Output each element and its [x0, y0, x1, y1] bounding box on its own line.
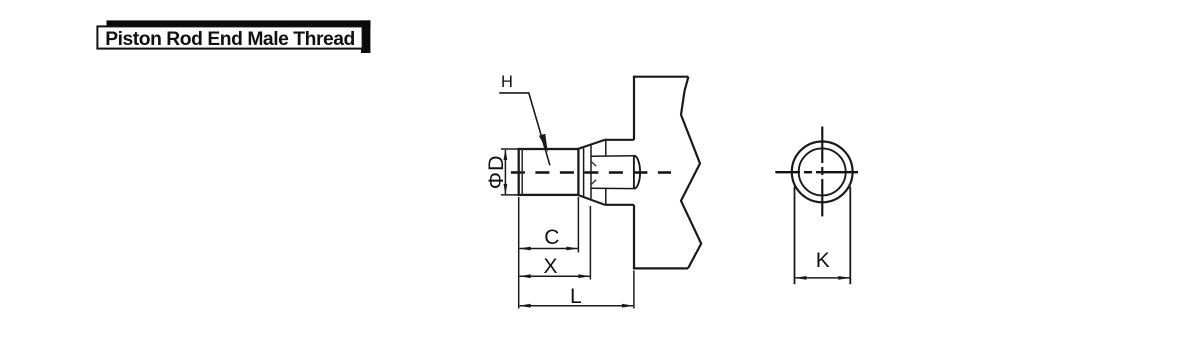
- body top edge: [633, 76, 689, 78]
- nut facet stub top: [592, 162, 597, 167]
- nut inner vertical v2: [590, 145, 592, 200]
- nut cone outer bottom: [578, 195, 604, 205]
- nut inner vertical v1: [583, 147, 585, 197]
- dimension C line: [519, 247, 579, 251]
- outer circle: [792, 142, 853, 203]
- nut corner edge bottom: [605, 189, 607, 205]
- inner circle (thread): [799, 148, 846, 195]
- dimension K line: [795, 276, 851, 280]
- label K: [816, 249, 830, 272]
- nut flat top edge: [591, 155, 634, 158]
- extension line body face: [633, 271, 635, 309]
- label L: [570, 285, 582, 308]
- horizontal centerline (right view): [775, 171, 858, 173]
- title box: [97, 26, 362, 50]
- svg-text:X: X: [543, 255, 557, 278]
- flat line left (K extension): [794, 187, 796, 285]
- nut bottom flat: [605, 204, 634, 206]
- extension line rod left: [518, 197, 520, 309]
- vertical centerline (right view): [821, 127, 823, 217]
- nut flat bottom edge: [591, 187, 634, 189]
- svg-text:L: L: [570, 285, 582, 308]
- svg-text:ΦD: ΦD: [483, 154, 508, 189]
- label H: [501, 73, 513, 91]
- dimension L line: [519, 304, 634, 308]
- svg-text:K: K: [816, 249, 830, 272]
- nut facet stub bottom: [592, 180, 597, 185]
- title shadow block: [107, 20, 371, 53]
- label C: [544, 226, 559, 249]
- threaded rod outline: [519, 149, 579, 195]
- dimension phiD extension lines: [501, 149, 521, 195]
- nut cone outer top: [578, 140, 605, 149]
- svg-text:Piston Rod End Male Thread: Piston Rod End Male Thread: [105, 29, 355, 50]
- label phiD (rotated): [483, 154, 508, 189]
- dimension phiD line with arrows: [504, 149, 508, 195]
- nut corner edge top: [605, 140, 607, 156]
- body left edge lower: [633, 205, 635, 269]
- body left edge upper: [633, 77, 635, 140]
- svg-text:C: C: [544, 226, 559, 249]
- body bottom edge: [633, 267, 688, 269]
- flat line right (K extension): [849, 187, 851, 285]
- extension line hex start: [589, 206, 591, 280]
- leader line for H: [499, 93, 550, 165]
- body break zigzag: [681, 77, 701, 269]
- nut top flat: [605, 139, 634, 141]
- label X: [543, 255, 557, 278]
- rod chamfer line: [521, 149, 523, 195]
- nut end arc: [634, 156, 640, 189]
- extension line rod end: [577, 197, 579, 253]
- svg-text:H: H: [501, 73, 513, 91]
- dimension X line: [519, 274, 591, 278]
- centerline (left view): [511, 171, 671, 174]
- nut end chord: [633, 156, 635, 189]
